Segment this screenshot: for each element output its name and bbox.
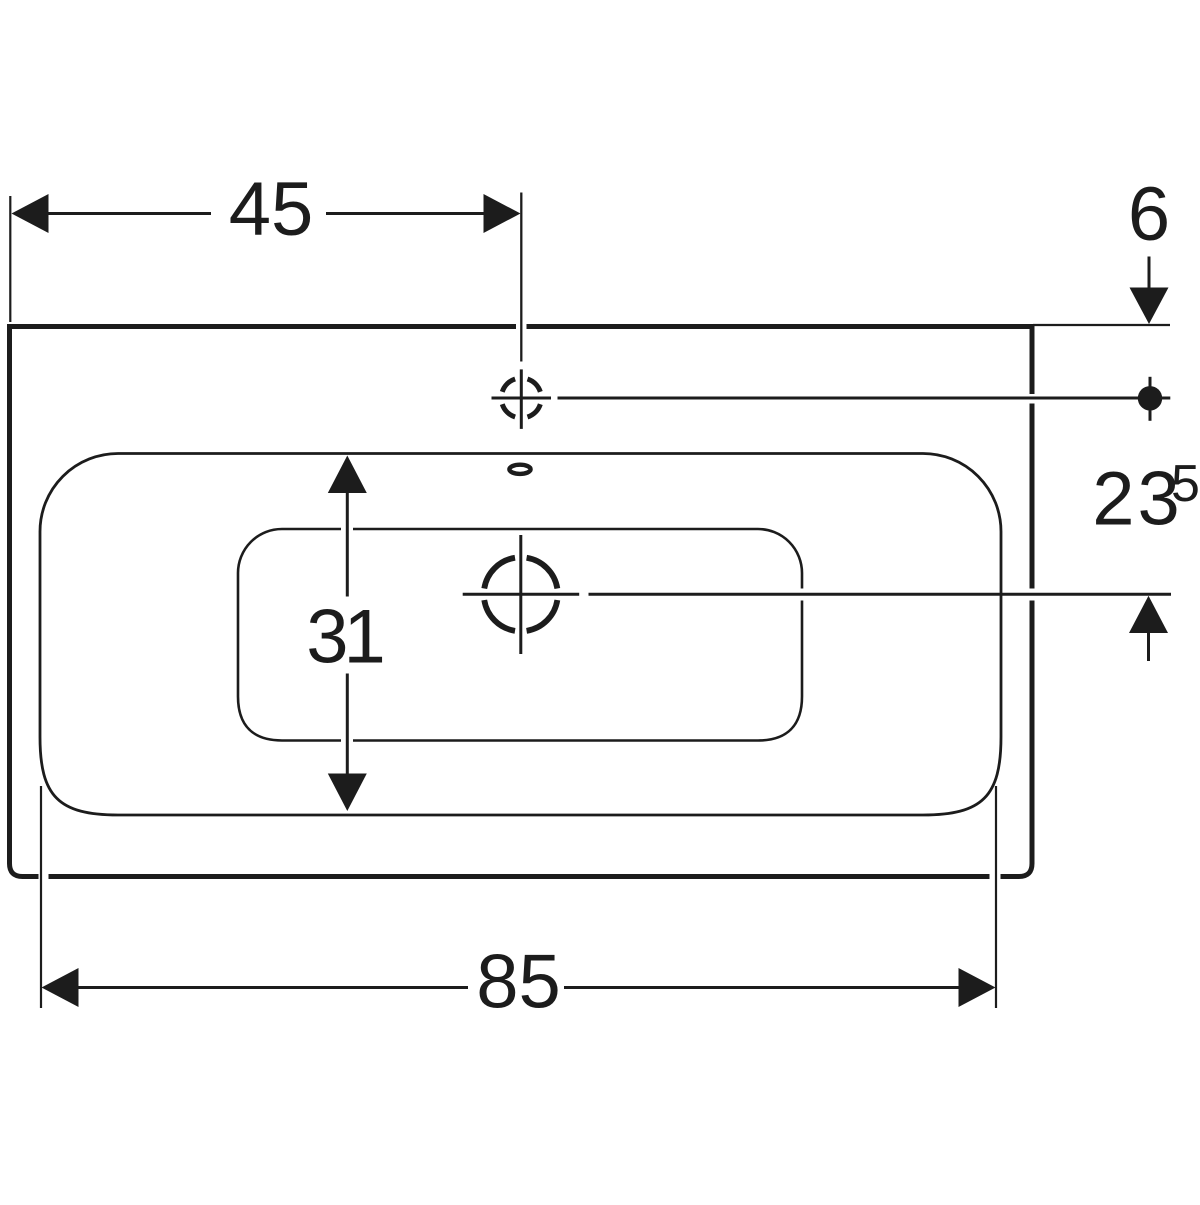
overflow slot ellipse (509, 465, 530, 474)
drain crosshair horizontal (463, 593, 580, 596)
dim 45: right arrowhead (484, 194, 521, 233)
dim 85: dimension line left segment (77, 986, 468, 989)
dim 6: down arrowhead (1130, 288, 1169, 325)
dim 6: arrow tail (1148, 257, 1151, 289)
dim 85: right extension line (995, 786, 997, 1008)
dim 31: line upper segment (346, 493, 349, 597)
svg-text:23: 23 (1092, 457, 1183, 542)
svg-text:45: 45 (229, 167, 314, 252)
gap in bottom edge at right 85-extension crossing (990, 873, 1001, 881)
gap in inner bowl top edge at 31-line crossing (341, 524, 353, 534)
drain hole circle (4 arcs) (484, 558, 557, 631)
gap in right edge at drain line crossing (1028, 589, 1036, 601)
reference dot vertical centerline (1149, 377, 1152, 421)
dim 31: up arrowhead at bowl top (328, 456, 367, 494)
dim 85: left arrowhead (42, 968, 79, 1007)
svg-text:5: 5 (1171, 455, 1200, 513)
bowl outer outline (40, 453, 1001, 815)
dim 45: dimension line right segment (326, 212, 486, 215)
dim 45: dimension line left segment (46, 212, 211, 215)
gap in inner bowl right edge at drain line crossing (797, 589, 808, 601)
outer basin rectangle (10, 327, 1033, 877)
gap in bottom edge at left 85-extension crossing (39, 873, 49, 881)
faucet hole circle (4 arcs) (502, 379, 540, 417)
dim 45: left extension line (9, 196, 11, 322)
dim 31: down arrowhead at bowl bottom (328, 774, 367, 812)
svg-text:6: 6 (1128, 172, 1170, 257)
gap in right edge at faucet line crossing (1028, 394, 1036, 404)
drain crosshair vertical (519, 535, 522, 654)
drain centerline to right (589, 593, 1172, 596)
dim 85: left extension line (40, 786, 42, 1008)
faucet hole centerline to right reference dot (558, 397, 1171, 400)
bowl inner outline (238, 529, 802, 741)
dim 85: right arrowhead (959, 968, 996, 1007)
svg-text:85: 85 (476, 940, 561, 1025)
dim 23.5: arrow tail (1147, 633, 1150, 661)
faucet hole crosshair vertical (520, 369, 523, 429)
dim 85: dimension line right segment (564, 986, 960, 989)
faucet hole crosshair horizontal (492, 397, 552, 400)
gap in top edge at 45-centerline crossing (516, 322, 527, 330)
dim 45: right extension / faucet centerline upper (520, 193, 522, 362)
dim 31: line lower segment (346, 674, 349, 774)
dim 23.5: up arrowhead at drain line (1129, 596, 1168, 633)
dim 45: left arrowhead (12, 194, 49, 233)
top edge extension line (right) (1033, 324, 1170, 326)
reference dot on faucet centerline (1138, 386, 1162, 410)
svg-text:31: 31 (306, 595, 382, 680)
gap in inner bowl bottom edge at 31-line crossing (341, 735, 353, 746)
